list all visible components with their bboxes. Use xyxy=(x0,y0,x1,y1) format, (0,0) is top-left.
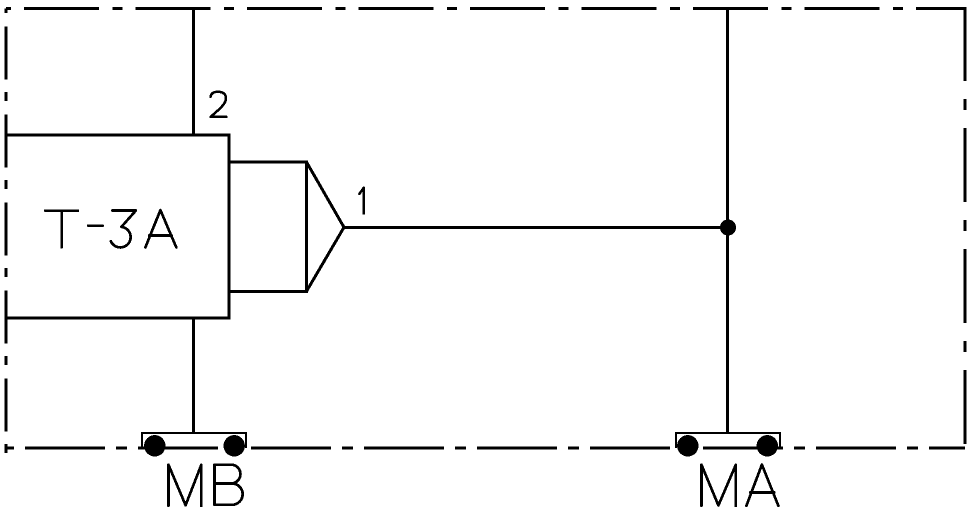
enclosure boundary right (dash-dot) xyxy=(964,7,967,450)
junction dot xyxy=(720,220,736,236)
label T-3A xyxy=(45,210,176,247)
cartridge valve nose rectangle xyxy=(229,162,307,291)
enclosure boundary left (dash-dot) xyxy=(5,9,8,454)
cartridge valve nose triangle xyxy=(307,162,345,291)
wire: port 2 to MB port xyxy=(192,318,195,433)
wire: MA vertical xyxy=(726,9,729,434)
wire: port 2 to top boundary xyxy=(192,9,195,136)
port MA plate xyxy=(676,433,780,448)
port MA seal dot left xyxy=(677,435,698,456)
enclosure boundary bottom (dash-dot) xyxy=(6,447,965,450)
enclosure boundary top (dash-dot) xyxy=(6,7,965,10)
label MA xyxy=(701,465,778,506)
pin label 1 xyxy=(359,188,363,214)
wire: port 1 to node on MA line xyxy=(344,226,728,229)
port MB plate xyxy=(142,433,246,448)
valve T-3A body xyxy=(6,135,229,318)
port MB seal dot left xyxy=(144,435,165,456)
label MB xyxy=(168,465,242,506)
port MA seal dot right xyxy=(757,435,778,456)
pin label 2 xyxy=(211,92,227,117)
port MB seal dot right xyxy=(224,435,245,456)
